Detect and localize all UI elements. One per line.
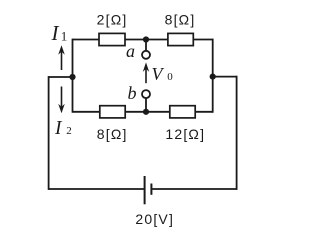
- wire bottom left to battery: [49, 188, 145, 190]
- junction dot right: [210, 74, 216, 80]
- junction dot bottom center: [143, 109, 149, 115]
- junction dot left: [69, 74, 75, 80]
- svg-text:a: a: [126, 41, 135, 61]
- wire bottom branch: [73, 111, 213, 113]
- svg-text:I: I: [54, 118, 63, 139]
- svg-text:2[Ω]: 2[Ω]: [97, 11, 128, 27]
- svg-text:I: I: [51, 21, 60, 45]
- current arrow I1 (up): [58, 45, 65, 70]
- svg-text:0: 0: [167, 71, 173, 83]
- svg-text:12[Ω]: 12[Ω]: [165, 126, 205, 142]
- svg-text:V: V: [152, 64, 165, 84]
- wire left inner vertical: [72, 39, 74, 113]
- svg-text:b: b: [128, 83, 137, 103]
- wire left stub to outer branch: [49, 76, 73, 78]
- wire right inner vertical: [212, 39, 214, 113]
- voltage arrow V0 (up, between b and a): [143, 62, 149, 83]
- resistor R2 8ohm top box: [168, 33, 193, 45]
- wire stub from node b to bottom branch: [145, 98, 147, 111]
- battery 20V long plate: [144, 176, 146, 204]
- current arrow I2 (down): [58, 87, 65, 114]
- svg-text:20[V]: 20[V]: [135, 211, 174, 227]
- resistor R1 2ohm box: [99, 33, 125, 45]
- wire outer right vertical: [236, 76, 238, 190]
- battery 20V short plate: [150, 184, 152, 195]
- svg-text:1: 1: [61, 29, 68, 44]
- wire top branch: [73, 39, 213, 41]
- resistor R3 8ohm bottom box: [100, 106, 125, 118]
- wire outer left vertical: [48, 76, 50, 190]
- wire right stub to outer branch: [213, 76, 237, 78]
- resistor R4 12ohm box: [170, 106, 195, 118]
- svg-text:8[Ω]: 8[Ω]: [165, 11, 196, 27]
- junction dot top center: [143, 36, 149, 42]
- wire stub from top branch to node a: [145, 40, 147, 51]
- wire bottom right to battery: [151, 188, 236, 190]
- node a terminal circle: [142, 51, 150, 59]
- node b terminal circle: [142, 90, 150, 98]
- svg-text:2: 2: [66, 125, 72, 137]
- svg-text:8[Ω]: 8[Ω]: [97, 126, 128, 142]
